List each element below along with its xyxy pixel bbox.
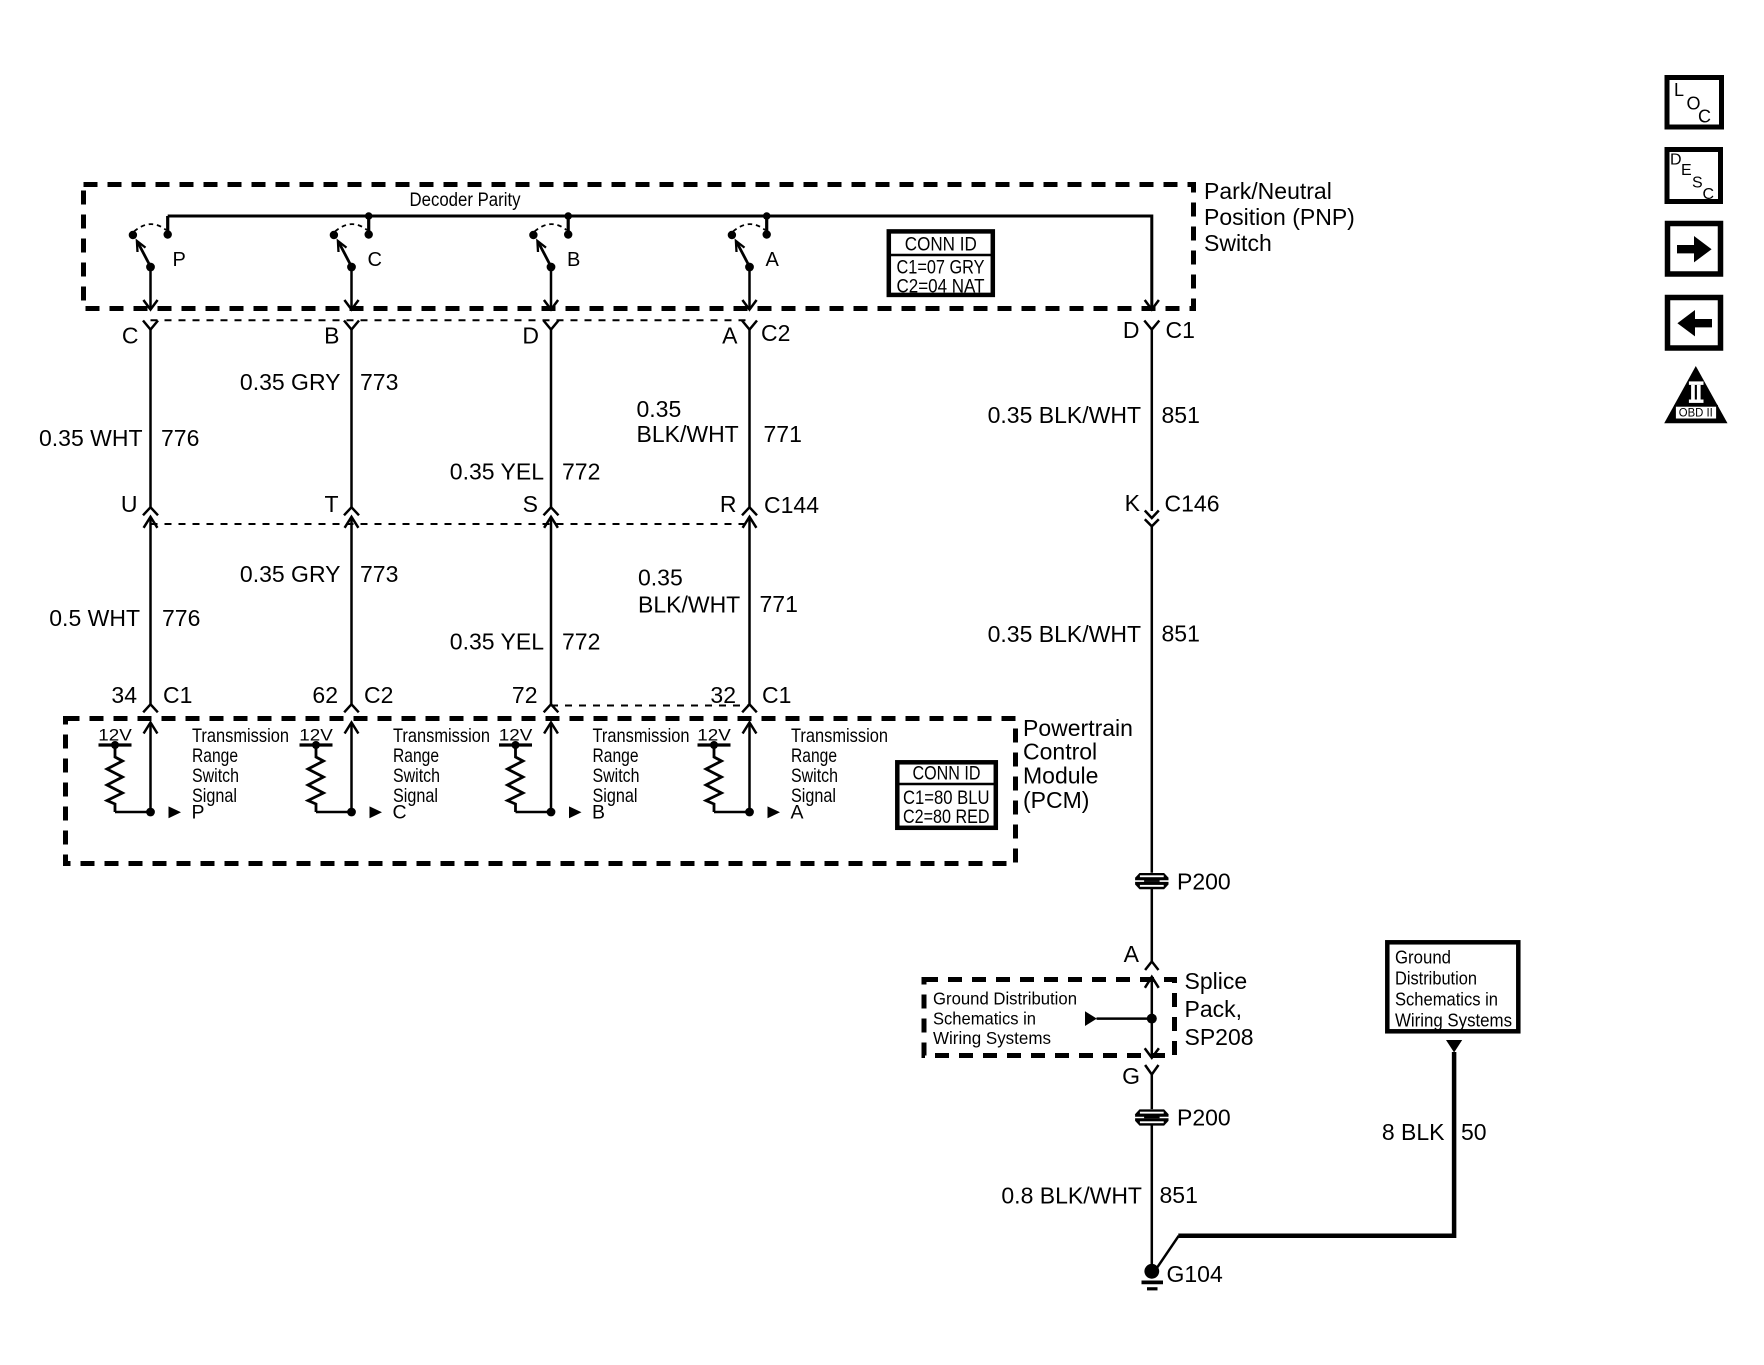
wire 3 upper segment bbox=[550, 330, 553, 508]
svg-text:BLK/WHT: BLK/WHT bbox=[637, 421, 739, 447]
svg-text:Ground: Ground bbox=[1395, 948, 1451, 968]
svg-text:Wiring Systems: Wiring Systems bbox=[933, 1028, 1051, 1048]
svg-text:0.35 YEL: 0.35 YEL bbox=[450, 459, 544, 485]
PCM pin 32 bbox=[710, 682, 791, 712]
node A (splice pack) bbox=[1124, 941, 1159, 970]
svg-text:B: B bbox=[567, 249, 580, 271]
wire 2 upper segment bbox=[350, 330, 353, 508]
wire resistor to junction (A) bbox=[714, 811, 750, 814]
svg-text:C: C bbox=[1703, 186, 1715, 203]
node D (PNP connector pin) bbox=[522, 321, 558, 349]
wire stub to contact (C) bbox=[367, 216, 370, 235]
icon LOC bbox=[1667, 78, 1722, 128]
label 0.35 YEL 772 (lower) bbox=[450, 629, 601, 655]
svg-text:R: R bbox=[720, 491, 737, 517]
wire signal B into PCM bbox=[544, 723, 558, 734]
svg-text:P: P bbox=[173, 249, 186, 271]
svg-text:0.5 WHT: 0.5 WHT bbox=[49, 605, 140, 631]
node G bbox=[1122, 1063, 1158, 1089]
CONN ID box PNP: C1=07 GRY / C2=04 NAT bbox=[889, 231, 993, 297]
svg-text:K: K bbox=[1125, 490, 1141, 516]
svg-text:A: A bbox=[766, 249, 780, 271]
wire pole down (A) bbox=[748, 267, 751, 309]
wire S lower segment with up arrow bbox=[544, 517, 558, 705]
PCM input circuit for signal B bbox=[499, 723, 690, 824]
wire stub to contact (B) bbox=[567, 216, 570, 235]
wire to splice pack bbox=[1151, 889, 1154, 962]
svg-text:Switch: Switch bbox=[393, 765, 440, 787]
svg-text:C1: C1 bbox=[1166, 317, 1195, 343]
resistor pull-up (C) bbox=[308, 745, 324, 812]
wire 851 upper bbox=[1151, 330, 1154, 512]
switch arm with arrowhead (A) bbox=[736, 242, 749, 267]
splice wire with arrows bbox=[1145, 977, 1159, 1058]
svg-text:(PCM): (PCM) bbox=[1023, 787, 1089, 813]
svg-text:8 BLK: 8 BLK bbox=[1382, 1119, 1445, 1145]
svg-text:0.8 BLK/WHT: 0.8 BLK/WHT bbox=[1001, 1183, 1142, 1209]
svg-text:CONN ID: CONN ID bbox=[913, 764, 981, 785]
svg-text:Position (PNP): Position (PNP) bbox=[1204, 204, 1355, 230]
label 0.35 GRY 773 (lower) bbox=[240, 561, 398, 587]
wire 851 to ground bbox=[1151, 1126, 1154, 1266]
node B (PNP connector pin) bbox=[324, 321, 359, 349]
wire 8 BLK 50 bbox=[1178, 1052, 1454, 1236]
svg-text:771: 771 bbox=[760, 591, 798, 617]
svg-text:851: 851 bbox=[1162, 621, 1200, 647]
signal arrow and label C bbox=[370, 806, 383, 818]
resistor pull-up (P) bbox=[107, 745, 123, 812]
Powertrain Control Module (PCM) box bbox=[66, 719, 1016, 864]
svg-text:C2: C2 bbox=[761, 320, 790, 346]
svg-text:OBD II: OBD II bbox=[1679, 408, 1713, 420]
svg-text:0.35: 0.35 bbox=[638, 565, 683, 591]
svg-text:773: 773 bbox=[360, 561, 398, 587]
node S (C144 pin) bbox=[523, 491, 559, 517]
label 8 BLK 50 bbox=[1382, 1119, 1487, 1145]
dashed throw arc (B) bbox=[535, 224, 567, 231]
svg-text:C146: C146 bbox=[1165, 491, 1220, 517]
svg-text:Schematics in: Schematics in bbox=[1395, 990, 1498, 1010]
label 0.35 YEL 772 bbox=[450, 459, 601, 485]
svg-text:P200: P200 bbox=[1177, 1105, 1231, 1131]
junction dot signal B bbox=[547, 808, 556, 817]
dashed tie line pins 72-32 bbox=[551, 705, 750, 707]
svg-text:Transmission: Transmission bbox=[791, 725, 888, 747]
dashed throw arc (P) bbox=[134, 224, 166, 231]
contact dots (C) bbox=[365, 230, 373, 238]
svg-text:32: 32 bbox=[710, 682, 736, 708]
dashed throw arc (C) bbox=[335, 224, 367, 231]
svg-text:Transmission: Transmission bbox=[593, 725, 690, 747]
svg-text:C2=04 NAT: C2=04 NAT bbox=[897, 277, 985, 298]
svg-text:Signal: Signal bbox=[593, 785, 638, 807]
wire resistor to junction (P) bbox=[115, 811, 151, 814]
icon arrow right bbox=[1668, 224, 1721, 275]
wire: decoder parity bus bbox=[168, 216, 1152, 310]
svg-text:772: 772 bbox=[562, 629, 600, 655]
svg-text:Signal: Signal bbox=[192, 785, 237, 807]
svg-text:0.35: 0.35 bbox=[637, 396, 682, 422]
svg-text:C: C bbox=[1698, 107, 1711, 127]
junction dot on parity bus (C) bbox=[365, 212, 373, 220]
PCM pin 72 bbox=[512, 682, 558, 712]
svg-text:C1=80 BLU: C1=80 BLU bbox=[903, 788, 990, 809]
PCM pin 62 bbox=[312, 682, 393, 712]
svg-text:D: D bbox=[1123, 317, 1140, 343]
svg-text:A: A bbox=[1124, 941, 1140, 967]
label 0.5 WHT 776 bbox=[49, 605, 200, 631]
wire signal C into PCM bbox=[345, 723, 359, 734]
wire U lower segment with up arrow bbox=[144, 517, 158, 705]
svg-text:D: D bbox=[522, 323, 539, 349]
junction dot on parity bus (A) bbox=[763, 212, 771, 220]
thin dashed connector line C144 bbox=[151, 523, 750, 525]
node R (C144 pin) bbox=[720, 491, 757, 517]
svg-text:Transmission: Transmission bbox=[393, 725, 490, 747]
label 0.35 BLK/WHT 851 (lower) bbox=[988, 621, 1200, 648]
switch arm with arrowhead (C) bbox=[338, 242, 351, 267]
text Ground Distribution Schematics in Wiring Systems (ref) bbox=[933, 989, 1077, 1049]
switch C of PNP bbox=[330, 212, 382, 309]
PCM input circuit for signal A bbox=[697, 723, 888, 824]
svg-text:Switch: Switch bbox=[791, 765, 838, 787]
wire G to P200 bbox=[1151, 1075, 1154, 1110]
svg-text:Signal: Signal bbox=[791, 785, 836, 807]
svg-text:0.35 WHT: 0.35 WHT bbox=[39, 425, 143, 451]
label 0.35 GRY 773 bbox=[240, 369, 398, 395]
svg-text:50: 50 bbox=[1461, 1119, 1487, 1145]
node C (PNP connector pin) bbox=[122, 321, 158, 349]
signal arrow and label B bbox=[569, 806, 582, 818]
svg-text:34: 34 bbox=[111, 682, 137, 708]
thin dashed connector line (top, C2) bbox=[151, 319, 750, 321]
junction dot signal A bbox=[745, 808, 754, 817]
svg-text:851: 851 bbox=[1162, 402, 1200, 428]
contact dots (A) bbox=[763, 230, 771, 238]
svg-text:Wiring Systems: Wiring Systems bbox=[1395, 1011, 1512, 1031]
wire R lower segment with up arrow bbox=[743, 517, 757, 705]
svg-text:SP208: SP208 bbox=[1185, 1024, 1254, 1050]
label Powertrain Control Module (PCM) bbox=[1023, 715, 1133, 813]
wire stub to contact (A) bbox=[765, 216, 768, 235]
svg-text:Park/Neutral: Park/Neutral bbox=[1204, 178, 1332, 204]
svg-text:S: S bbox=[523, 491, 538, 517]
wire pole down (B) bbox=[550, 267, 553, 309]
svg-text:C144: C144 bbox=[764, 492, 819, 518]
svg-text:Control: Control bbox=[1023, 739, 1097, 765]
wire signal P into PCM bbox=[144, 723, 158, 734]
svg-text:772: 772 bbox=[562, 459, 600, 485]
svg-text:Signal: Signal bbox=[393, 785, 438, 807]
svg-text:C: C bbox=[122, 323, 139, 349]
svg-text:E: E bbox=[1681, 162, 1692, 179]
label 0.35 BLK/WHT 771 (lower) bbox=[638, 565, 798, 618]
label 0.8 BLK/WHT 851 bbox=[1001, 1182, 1197, 1209]
switch P of PNP bbox=[129, 216, 186, 310]
switch B of PNP bbox=[529, 212, 580, 309]
svg-text:C2=80 RED: C2=80 RED bbox=[903, 807, 990, 828]
wire pole down (P) bbox=[149, 267, 152, 309]
CONN ID box PCM: C1=80 BLU / C2=80 RED bbox=[897, 762, 996, 828]
contact dots (B) bbox=[564, 230, 572, 238]
svg-text:Switch: Switch bbox=[192, 765, 239, 787]
junction dot signal C bbox=[347, 808, 356, 817]
svg-text:C1: C1 bbox=[163, 682, 192, 708]
label 0.35 BLK/WHT 771 (upper) bbox=[637, 396, 802, 447]
label Park/Neutral Position (PNP) Switch bbox=[1204, 178, 1355, 256]
PCM pin 34 bbox=[111, 682, 192, 712]
svg-text:Pack,: Pack, bbox=[1185, 996, 1243, 1022]
svg-text:72: 72 bbox=[512, 682, 538, 708]
Ground Distribution Schematics in Wiring Systems box bbox=[1387, 942, 1518, 1031]
svg-text:Switch: Switch bbox=[1204, 230, 1272, 256]
wire resistor to junction (B) bbox=[516, 811, 552, 814]
svg-text:Schematics in: Schematics in bbox=[933, 1009, 1036, 1029]
node A (PNP connector pin) bbox=[722, 321, 757, 349]
svg-text:C1=07 GRY: C1=07 GRY bbox=[897, 258, 985, 279]
junction dot signal P bbox=[146, 808, 155, 817]
svg-text:0.35 YEL: 0.35 YEL bbox=[450, 629, 544, 655]
Park/Neutral Position (PNP) Switch box bbox=[84, 185, 1194, 309]
svg-text:Powertrain: Powertrain bbox=[1023, 715, 1133, 741]
svg-text:Transmission: Transmission bbox=[192, 725, 289, 747]
svg-text:Range: Range bbox=[192, 745, 238, 767]
resistor pull-up (A) bbox=[706, 745, 722, 812]
svg-text:776: 776 bbox=[161, 425, 199, 451]
svg-text:L: L bbox=[1674, 80, 1684, 100]
svg-text:C: C bbox=[368, 249, 382, 271]
svg-text:Module: Module bbox=[1023, 763, 1098, 789]
diagonal to G104 bbox=[1156, 1236, 1179, 1269]
wire signal A into PCM bbox=[743, 723, 757, 734]
svg-text:C1: C1 bbox=[762, 682, 791, 708]
ground G104 bbox=[1142, 1261, 1223, 1289]
switch arm with arrowhead (P) bbox=[137, 242, 150, 267]
svg-text:851: 851 bbox=[1160, 1182, 1198, 1208]
wire 4 upper segment bbox=[748, 330, 751, 508]
signal arrow and label P bbox=[169, 806, 182, 818]
icon arrow left bbox=[1668, 298, 1721, 349]
svg-text:62: 62 bbox=[312, 682, 338, 708]
wire 1 upper segment bbox=[149, 330, 152, 508]
svg-text:Splice: Splice bbox=[1185, 968, 1248, 994]
PCM input circuit for signal C bbox=[299, 723, 490, 824]
svg-text:S: S bbox=[1692, 175, 1703, 192]
dashed throw arc (A) bbox=[733, 224, 765, 231]
svg-text:Ground Distribution: Ground Distribution bbox=[933, 989, 1077, 1009]
icon OBD II triangle bbox=[1664, 366, 1727, 423]
svg-text:Range: Range bbox=[393, 745, 439, 767]
svg-text:0.35 GRY: 0.35 GRY bbox=[240, 369, 341, 395]
svg-text:771: 771 bbox=[764, 421, 802, 447]
svg-text:U: U bbox=[121, 491, 138, 517]
node U (C144 pin) bbox=[121, 491, 158, 517]
svg-text:0.35 BLK/WHT: 0.35 BLK/WHT bbox=[988, 402, 1141, 428]
node T (C144 pin) bbox=[324, 491, 359, 517]
switch A of PNP bbox=[728, 212, 780, 309]
svg-text:D: D bbox=[1670, 152, 1682, 169]
svg-text:C2: C2 bbox=[364, 682, 393, 708]
svg-text:Decoder Parity: Decoder Parity bbox=[410, 190, 521, 211]
PCM input circuit for signal P bbox=[98, 723, 289, 824]
splice junction + ref arrow bbox=[1085, 1011, 1157, 1026]
svg-text:0.35 BLK/WHT: 0.35 BLK/WHT bbox=[988, 621, 1141, 647]
label Splice Pack, SP208 bbox=[1185, 968, 1254, 1050]
resistor pull-up (B) bbox=[508, 745, 524, 812]
switch arm with arrowhead (B) bbox=[538, 242, 551, 267]
contact dots (P) bbox=[164, 230, 172, 238]
svg-text:G: G bbox=[1122, 1063, 1140, 1089]
junction dot on parity bus (B) bbox=[564, 212, 572, 220]
wire pole down (C) bbox=[350, 267, 353, 309]
wire 851 mid bbox=[1151, 526, 1154, 873]
node K C146 bbox=[1125, 490, 1220, 526]
svg-text:CONN ID: CONN ID bbox=[905, 235, 977, 256]
svg-text:T: T bbox=[324, 491, 338, 517]
svg-text:Switch: Switch bbox=[593, 765, 640, 787]
label 0.35 WHT 776 bbox=[39, 425, 199, 451]
arrow into box bbox=[1446, 1040, 1462, 1053]
Splice Pack SP208 box bbox=[924, 980, 1175, 1056]
svg-text:773: 773 bbox=[360, 369, 398, 395]
svg-text:Range: Range bbox=[593, 745, 639, 767]
signal arrow and label A bbox=[768, 806, 781, 818]
svg-text:776: 776 bbox=[162, 605, 200, 631]
wire stub to contact (P) bbox=[166, 216, 169, 235]
svg-text:Range: Range bbox=[791, 745, 837, 767]
svg-text:Distribution: Distribution bbox=[1395, 969, 1477, 989]
label 0.35 BLK/WHT 851 (upper) bbox=[988, 402, 1200, 428]
svg-text:P200: P200 bbox=[1177, 869, 1231, 895]
wire T lower segment with up arrow bbox=[345, 517, 359, 705]
connector P200 (upper) bbox=[1135, 869, 1231, 895]
node D C1 (right, PNP connector) bbox=[1123, 300, 1195, 343]
connector P200 (lower) bbox=[1135, 1105, 1231, 1131]
svg-text:B: B bbox=[324, 323, 339, 349]
svg-text:BLK/WHT: BLK/WHT bbox=[638, 592, 740, 618]
svg-text:A: A bbox=[722, 323, 738, 349]
wire resistor to junction (C) bbox=[316, 811, 352, 814]
svg-text:G104: G104 bbox=[1167, 1261, 1223, 1287]
svg-text:0.35 GRY: 0.35 GRY bbox=[240, 561, 341, 587]
icon DESC bbox=[1667, 150, 1721, 204]
